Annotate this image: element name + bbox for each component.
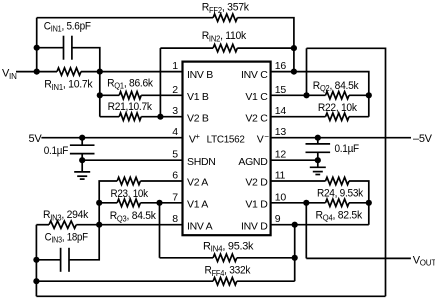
svg-text:V1 B: V1 B [187, 91, 209, 103]
wire: INV A to RQ3 [99, 202, 117, 204]
wire: INV C riser [293, 48, 295, 72]
svg-text:RFF2​, 357k: RFF2​, 357k [202, 2, 250, 15]
resistor RIN1 10.7k [57, 68, 81, 75]
svg-text:AGND: AGND [238, 156, 268, 168]
svg-text:0.1µF: 0.1µF [44, 145, 69, 157]
wire: 5V to pin 4 V+ [41, 137, 182, 139]
junction: V1 C node [303, 92, 309, 98]
wire: CIN1 right + riser to INV B [72, 48, 100, 72]
wire: R24 corner + INV D right vertical [349, 181, 369, 225]
junction: INV D / RIN4-RFF4 riser [292, 222, 298, 228]
svg-text:10: 10 [275, 191, 287, 203]
wire: RQ1 to pin 2 V1 B [141, 94, 182, 96]
resistor RIN3 294k [49, 221, 76, 228]
wire: pin 11 V2 D to R24 [271, 180, 326, 182]
wire: right cap bottom lead [317, 152, 319, 167]
svg-text:CIN3​, 18pF: CIN3​, 18pF [45, 232, 89, 245]
svg-text:5V: 5V [29, 133, 43, 145]
wire: RFF2 row left [37, 17, 213, 19]
junction: V- / bypass cap [315, 135, 321, 141]
wire: CIN3 right lead + riser to INV A [69, 225, 99, 260]
svg-text:0.1µF: 0.1µF [335, 143, 360, 155]
wire: VIN vertical up to RFF2 [36, 18, 38, 72]
resistor RIN4 95.3k [213, 254, 237, 261]
wire: RIN4 right lead [237, 257, 295, 259]
junction: RFF4 left [33, 278, 39, 284]
junction: INV B / RQ1 [97, 92, 103, 98]
wire: pin 13 V- to -5V [271, 137, 411, 139]
capacitor 0.1uF right bypass [306, 144, 331, 152]
junction: VIN node [34, 69, 40, 75]
resistor RQ1 86.6k [119, 92, 141, 99]
svg-text:V2 D: V2 D [245, 177, 268, 189]
wire: pin 15 V1 C to RQ2 [271, 94, 326, 96]
wire: VIN to RIN1 [16, 71, 57, 73]
junction: V+ / bypass cap [79, 135, 85, 141]
svg-text:V2 C: V2 C [245, 112, 268, 124]
capacitor CIN1 5.6pF [64, 36, 72, 60]
wire: bottom V1 C net run [36, 295, 385, 297]
svg-text:11: 11 [275, 170, 286, 182]
junction: RIN4 right [292, 255, 298, 261]
svg-text:7: 7 [172, 191, 178, 203]
svg-text:RFF4​, 332k: RFF4​, 332k [205, 265, 251, 278]
resistor RIN2 110k [213, 44, 237, 51]
wire: pin 12 AGND [271, 159, 318, 161]
svg-text:RQ2​, 84.5k: RQ2​, 84.5k [313, 80, 359, 93]
svg-text:V1 C: V1 C [245, 91, 268, 103]
wire: V1 C net left vertical [35, 225, 37, 297]
svg-text:RQ3​, 84.5k: RQ3​, 84.5k [110, 210, 157, 223]
svg-text:15: 15 [275, 84, 287, 96]
wire: pin 14 V2 C to R22 [271, 116, 326, 118]
wire: RIN3 left [36, 224, 49, 226]
wire: R22 to INV C vertical [349, 116, 369, 118]
capacitor CIN3 18pF [61, 248, 69, 272]
junction: INV C node [291, 69, 297, 75]
junction: V2 B / RIN2 [157, 114, 163, 120]
capacitor 0.1uF left bypass [70, 145, 95, 153]
wire: R21 to pin 3 V2 B [141, 116, 182, 118]
wire: R23 corner + INV A vertical [99, 181, 117, 225]
resistor RFF2 357k [213, 14, 237, 21]
wire: pin 10 V1 D [271, 202, 307, 204]
junction: V1 A / RIN4 tap [156, 200, 162, 206]
svg-text:RQ4​, 82.5k: RQ4​, 82.5k [316, 209, 363, 222]
wire: pin 16 INV C row + right vertical [271, 72, 369, 117]
svg-text:INV D: INV D [241, 220, 268, 232]
junction: AGND / ground [315, 157, 321, 163]
ground right [310, 167, 326, 174]
svg-text:R21,10.7k: R21,10.7k [108, 101, 153, 113]
svg-text:3: 3 [172, 105, 178, 117]
svg-text:R22, 10k: R22, 10k [318, 102, 358, 114]
wire: V1 C loop top + right side down [307, 48, 386, 296]
wire: V1 D to RQ4 [306, 202, 325, 204]
svg-text:INV A: INV A [187, 220, 213, 232]
svg-text:RQ1​, 86.6k: RQ1​, 86.6k [107, 77, 153, 90]
wire: VOUT line [306, 257, 411, 259]
resistor R22 10k [326, 113, 350, 120]
wire: V1 A riser down to RIN4 [159, 203, 161, 258]
wire: V1 C riser [306, 48, 308, 95]
svg-text:INV C: INV C [241, 69, 268, 81]
wire: cap bottom lead to ground [81, 154, 83, 172]
svg-text:9: 9 [275, 213, 281, 225]
svg-text:RIN2​, 110k: RIN2​, 110k [202, 30, 247, 43]
svg-text:2: 2 [172, 84, 178, 96]
wire: RIN2 right [237, 47, 294, 49]
wire: INV D riser down [294, 225, 296, 282]
wire: RIN3 to pin 8 INV A [76, 224, 182, 226]
junction: CIN3 left [33, 257, 39, 263]
junction: RQ2 / INV C vertical [366, 92, 372, 98]
wire: RQ2 to INV C vertical [349, 94, 369, 96]
svg-text:V1 D: V1 D [245, 198, 268, 210]
svg-text:16: 16 [275, 60, 287, 72]
svg-text:R24, 9.53k: R24, 9.53k [317, 188, 364, 200]
wire: RIN4 row left [160, 257, 214, 259]
junction: INV A node [96, 222, 102, 228]
wire: VOUT riser [305, 203, 307, 259]
wire: corner to R21 [100, 116, 119, 118]
junction: VIN / CIN1 [34, 45, 40, 51]
svg-text:1: 1 [172, 60, 178, 72]
junction: V1 D / VOUT tap [303, 200, 309, 206]
ground left [74, 172, 90, 179]
svg-text:6: 6 [172, 170, 178, 182]
wire: cap top lead [81, 138, 83, 146]
svg-text:+: + [195, 132, 200, 141]
resistor R23 10k [117, 177, 140, 184]
svg-text:V: V [257, 133, 264, 145]
resistor RQ4 82.5k [326, 199, 350, 206]
svg-text:RIN3​, 294k: RIN3​, 294k [43, 209, 89, 222]
svg-text:V1 A: V1 A [187, 198, 208, 210]
resistor R24 9.53k [326, 177, 350, 184]
wire: RQ3 to pin 7 V1 A [140, 202, 182, 204]
resistor RQ3 84.5k [117, 199, 140, 206]
wire: RIN2 row left [160, 47, 213, 49]
junction: RIN2 / RFF2 [291, 45, 297, 51]
wire: RFF2 right + riser down to INV C node [237, 18, 294, 48]
junction: INV D vertical / RQ4 [366, 200, 372, 206]
wire: RIN1 to pin 1 INV B [81, 71, 183, 73]
op-amp/filter IC U1 LTC1562 body [183, 62, 271, 236]
svg-text:V2 A: V2 A [187, 177, 208, 189]
svg-text:4: 4 [172, 126, 178, 138]
wire: RFF4 row left [36, 280, 213, 282]
svg-text:14: 14 [275, 105, 287, 117]
svg-text:12: 12 [275, 149, 287, 161]
svg-text:13: 13 [275, 126, 287, 138]
wire: INV B to RQ1 [100, 94, 119, 96]
wire: CIN1 left [37, 47, 64, 49]
junction: INV A / RQ3 [96, 200, 102, 206]
resistor RFF4 332k [213, 278, 237, 285]
junction: INV B node [97, 69, 103, 75]
wire: RIN2 riser to V2 B [159, 48, 161, 117]
svg-text:8: 8 [172, 213, 178, 225]
wire: right cap top lead [317, 138, 319, 144]
svg-text:−: − [264, 132, 269, 141]
svg-text:V2 B: V2 B [187, 112, 209, 124]
svg-text:5: 5 [172, 149, 178, 161]
wire: INV B vertical [99, 72, 101, 117]
resistor RQ2 84.5k [326, 92, 350, 99]
wire: pin 6 V2 A to R23 [140, 180, 182, 182]
wire: RFF4 right lead [237, 280, 295, 282]
svg-text:INV B: INV B [187, 69, 213, 81]
junction: SHDN / ground [79, 157, 85, 163]
wire: pin 5 SHDN [82, 159, 182, 161]
wire: CIN3 left lead [36, 259, 60, 261]
svg-text:–5V: –5V [413, 133, 433, 145]
wire: RQ4 right [349, 202, 369, 204]
wire: pin 9 INV D row [271, 224, 369, 226]
svg-text:LTC1562: LTC1562 [207, 133, 245, 145]
resistor R21 10.7k [119, 113, 141, 120]
svg-text:SHDN: SHDN [187, 156, 216, 168]
svg-text:R23, 10k: R23, 10k [111, 188, 149, 200]
